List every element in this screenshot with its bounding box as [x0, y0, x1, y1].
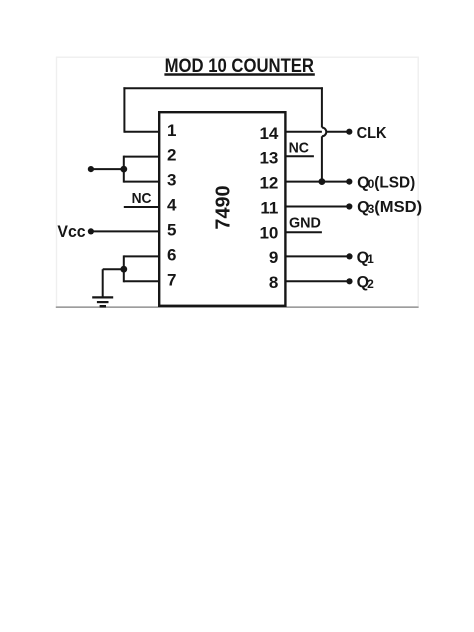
svg-text:(LSD): (LSD): [374, 175, 415, 192]
wire reset node to pins 2-3: [91, 168, 124, 170]
wire joining pins 6 and 7: [123, 255, 125, 282]
drawing canvas frame (decorative): [57, 57, 419, 307]
junction dot pins 6-7: [120, 266, 127, 273]
node Q1 label: [357, 249, 375, 266]
svg-text:14: 14: [259, 124, 278, 143]
ground symbol: [92, 297, 113, 306]
node Q3 (MSD) label: [357, 199, 422, 216]
node Q2 label: [357, 274, 375, 291]
wire ground drop vertical: [102, 269, 104, 297]
svg-text:1: 1: [167, 121, 176, 140]
svg-text:(MSD): (MSD): [374, 199, 422, 216]
wire hop over CLK line: [322, 128, 326, 137]
terminal dot Vcc: [88, 228, 94, 234]
terminal dot CLK: [346, 129, 352, 135]
terminal dot reset input: [88, 166, 94, 172]
wire feedback loop right vertical upper: [321, 87, 323, 127]
wire pin 3 stub: [124, 181, 160, 183]
svg-text:10: 10: [259, 223, 278, 242]
svg-text:GND: GND: [289, 215, 321, 232]
svg-text:7: 7: [167, 270, 176, 289]
wire feedback loop right vertical lower: [321, 136, 323, 182]
wire pin 10 GND stub: [286, 231, 322, 233]
wire pin 4 NC stub: [124, 206, 160, 208]
svg-text:Vcc: Vcc: [57, 222, 85, 241]
wire pin 8 to Q2 terminal: [286, 280, 348, 282]
terminal dot Q2: [346, 278, 352, 284]
terminal dot Q1: [346, 253, 352, 259]
svg-text:NC: NC: [289, 140, 310, 157]
svg-text:12: 12: [259, 174, 278, 193]
wire pin 13 NC stub: [286, 155, 314, 157]
wire pin 11 to Q3 terminal: [286, 206, 348, 208]
svg-text:13: 13: [259, 149, 278, 168]
svg-text:CLK: CLK: [357, 125, 387, 142]
junction dot feedback to pin 12: [319, 178, 326, 185]
wire pin 14 to CLK terminal: [286, 131, 348, 133]
terminal dot Q0: [346, 179, 352, 185]
svg-text:5: 5: [167, 221, 176, 240]
wire feedback loop top horizontal: [123, 87, 323, 89]
wire Vcc to pin 5: [91, 230, 160, 232]
wire pin 9 to Q1 terminal: [286, 255, 348, 257]
svg-text:2: 2: [167, 146, 176, 165]
junction dot pins 2-3: [120, 166, 127, 173]
svg-text:3: 3: [167, 171, 176, 190]
wire pin 2 stub: [124, 156, 160, 158]
terminal dot Q3: [346, 203, 352, 209]
wire feedback loop left vertical: [123, 87, 125, 132]
IC U1 7490 body: [159, 112, 285, 306]
wire pin 1 stub: [124, 131, 160, 133]
svg-text:11: 11: [260, 198, 278, 217]
title MOD 10 COUNTER: [164, 56, 314, 77]
svg-text:4: 4: [167, 196, 177, 215]
svg-text:1: 1: [367, 252, 374, 266]
svg-text:9: 9: [269, 248, 278, 267]
svg-text:6: 6: [167, 246, 176, 265]
wire pin 12 to Q0 terminal: [286, 181, 348, 183]
wire pin 6 stub: [124, 255, 160, 257]
svg-text:2: 2: [367, 277, 374, 291]
svg-text:NC: NC: [132, 190, 152, 207]
node Q0 (LSD) label: [357, 175, 415, 192]
svg-text:8: 8: [269, 273, 278, 292]
wire pins 6-7 to ground horizontal: [103, 268, 124, 270]
svg-text:7490: 7490: [213, 185, 235, 229]
wire joining pins 2 and 3: [123, 156, 125, 183]
wire pin 7 stub: [124, 280, 160, 282]
